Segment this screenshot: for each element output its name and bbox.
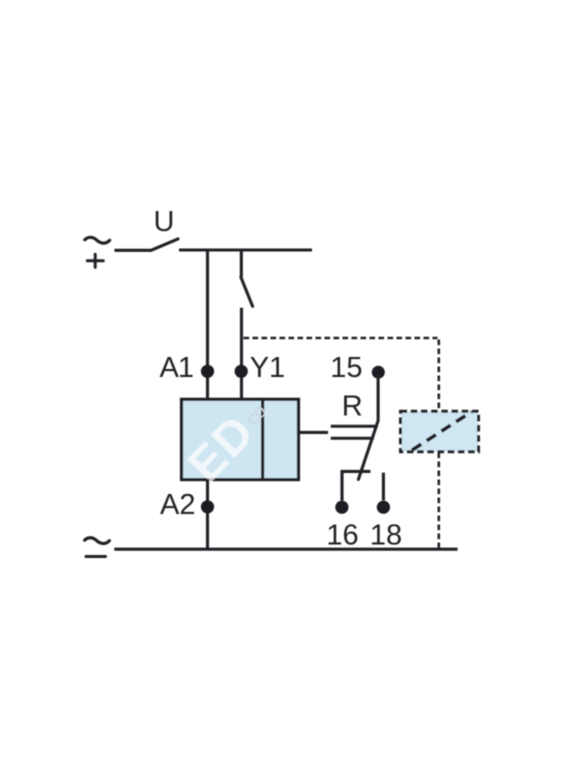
AC/DC plus supply symbol bbox=[85, 237, 110, 267]
timing element box (dashed, filled) bbox=[401, 411, 479, 452]
wire coil output stub bbox=[299, 431, 328, 434]
wire A2 bbox=[206, 479, 209, 550]
wire bottom return bus bbox=[114, 548, 457, 551]
terminal 18 stub bbox=[382, 473, 385, 501]
watermark com bbox=[242, 401, 271, 430]
wire from supply to switch U bbox=[115, 249, 152, 252]
AC/DC minus supply symbol bbox=[85, 538, 110, 557]
svg-text:Y1: Y1 bbox=[250, 352, 285, 384]
svg-text:R: R bbox=[342, 391, 363, 423]
svg-text:U: U bbox=[154, 206, 175, 238]
node A2 bbox=[201, 500, 214, 513]
watermark ED bbox=[178, 405, 265, 493]
wire Y1 upper segment bbox=[240, 249, 243, 278]
wire Y1 lower segment bbox=[240, 308, 243, 399]
dashed control link vertical lower bbox=[437, 453, 440, 550]
terminal 16 node bbox=[335, 501, 348, 514]
terminal 15 node bbox=[372, 366, 385, 379]
wire top supply bus bbox=[179, 248, 312, 251]
svg-text:A2: A2 bbox=[160, 489, 195, 521]
switch U blade bbox=[151, 239, 178, 251]
svg-text:A1: A1 bbox=[160, 352, 193, 384]
node Y1 bbox=[235, 365, 248, 378]
svg-text:15: 15 bbox=[330, 352, 362, 384]
relay coil box bbox=[182, 399, 299, 480]
wire A1 branch bbox=[206, 249, 209, 400]
contact blade on Y1 branch bbox=[241, 277, 253, 306]
wire from terminal 15 bbox=[377, 374, 380, 421]
terminal 16 hook bbox=[342, 471, 370, 500]
dashed control link horizontal bbox=[244, 337, 438, 340]
node A1 bbox=[201, 365, 214, 378]
moving contact blade 15 bbox=[358, 421, 378, 479]
svg-text:16: 16 bbox=[326, 520, 358, 552]
terminal 18 node bbox=[377, 501, 390, 514]
delay linkage symbol (two parallel lines) bbox=[331, 426, 378, 438]
dashed control link vertical upper bbox=[437, 340, 440, 411]
svg-text:18: 18 bbox=[370, 520, 402, 552]
